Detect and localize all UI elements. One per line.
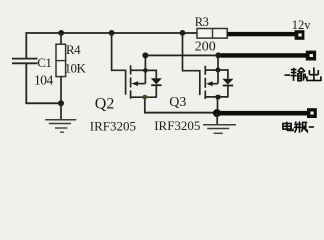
resistor R4 (56, 33, 66, 104)
svg-text:Q3: Q3 (169, 95, 186, 110)
svg-text:200: 200 (195, 40, 216, 55)
node: junction output line at Q2 (142, 52, 148, 58)
svg-text:Q2: Q2 (95, 96, 115, 113)
transistor Q2 (IRF3205 N-MOSFET) (112, 33, 157, 113)
wire: bottom left (C1 to R4 bottom) (25, 102, 62, 104)
source stub (205, 96, 228, 98)
node: junction top of R4 (58, 30, 64, 36)
label 电瓶- (battery minus) (283, 122, 314, 133)
wire: source bus (thin) from Q2 to Q3 junction (144, 112, 218, 114)
drain stub (131, 69, 146, 71)
wire: battery (thick) to terminal (219, 111, 309, 116)
glyph 电 (283, 122, 293, 131)
node: junction output line at Q3 (215, 52, 221, 58)
body diode of Q2 (145, 70, 161, 97)
wire: output (thick) to terminal (221, 53, 307, 58)
bulk arrow of Q2 (131, 81, 138, 86)
bulk arrow of Q3 (206, 81, 213, 86)
terminal: 12v (295, 30, 305, 40)
node: junction top wire / Q3 gate feed (180, 30, 186, 36)
ground (right) (203, 113, 236, 133)
svg-text:12v: 12v (292, 18, 312, 32)
body diode of Q3 (218, 70, 233, 97)
label -输出 (minus output) (284, 67, 321, 81)
gate bar (199, 70, 201, 95)
ground (left) (45, 104, 76, 133)
wire: 12v feed (thick) (228, 32, 296, 36)
gate feed wire (112, 33, 126, 70)
glyph 出 (306, 67, 321, 80)
node: Q3 drain/diode junction (216, 68, 221, 73)
right vertical (drain to bulk join) (144, 55, 146, 83)
terminal: output (306, 51, 316, 61)
bulk arrow stub (211, 83, 218, 85)
svg-text:10K: 10K (65, 60, 87, 75)
svg-text:R3: R3 (195, 15, 209, 29)
right vertical (drain to bulk join) (217, 55, 219, 83)
svg-text:IRF3205: IRF3205 (154, 118, 200, 133)
node: junction source bus / ground (213, 109, 221, 117)
channel bar segments (130, 65, 132, 74)
resistor R3 (197, 29, 227, 39)
drain stub (205, 69, 218, 71)
wire: top bus from C1 to R3 (25, 32, 197, 34)
node: Q2 drain/diode junction (143, 68, 148, 73)
source down lead (145, 97, 146, 112)
gate feed wire (183, 33, 200, 71)
gate bar (125, 70, 127, 95)
bulk arrow stub (137, 83, 146, 85)
wire: output line (Q2 drain to Q3 drain, thin) (145, 55, 222, 57)
terminal: battery (307, 108, 317, 118)
node: Q3 source/diode junction (216, 95, 220, 99)
source down lead (217, 97, 219, 113)
node: Q2 source/diode junction (142, 95, 147, 100)
svg-text:IRF3205: IRF3205 (90, 118, 136, 133)
svg-text:104: 104 (34, 73, 54, 88)
glyph 瓶 (294, 122, 307, 133)
svg-text:C1: C1 (37, 55, 51, 70)
glyph 输 (291, 68, 306, 81)
node: junction bottom of R4 / ground tap (58, 100, 64, 106)
transistor Q3 (IRF3205 N-MOSFET) (183, 33, 229, 113)
capacitor C1 (12, 33, 38, 104)
channel bar segments (204, 66, 206, 75)
node: junction top wire / Q2 gate feed (109, 30, 115, 36)
source stub (131, 96, 157, 98)
svg-text:R4: R4 (66, 42, 81, 57)
